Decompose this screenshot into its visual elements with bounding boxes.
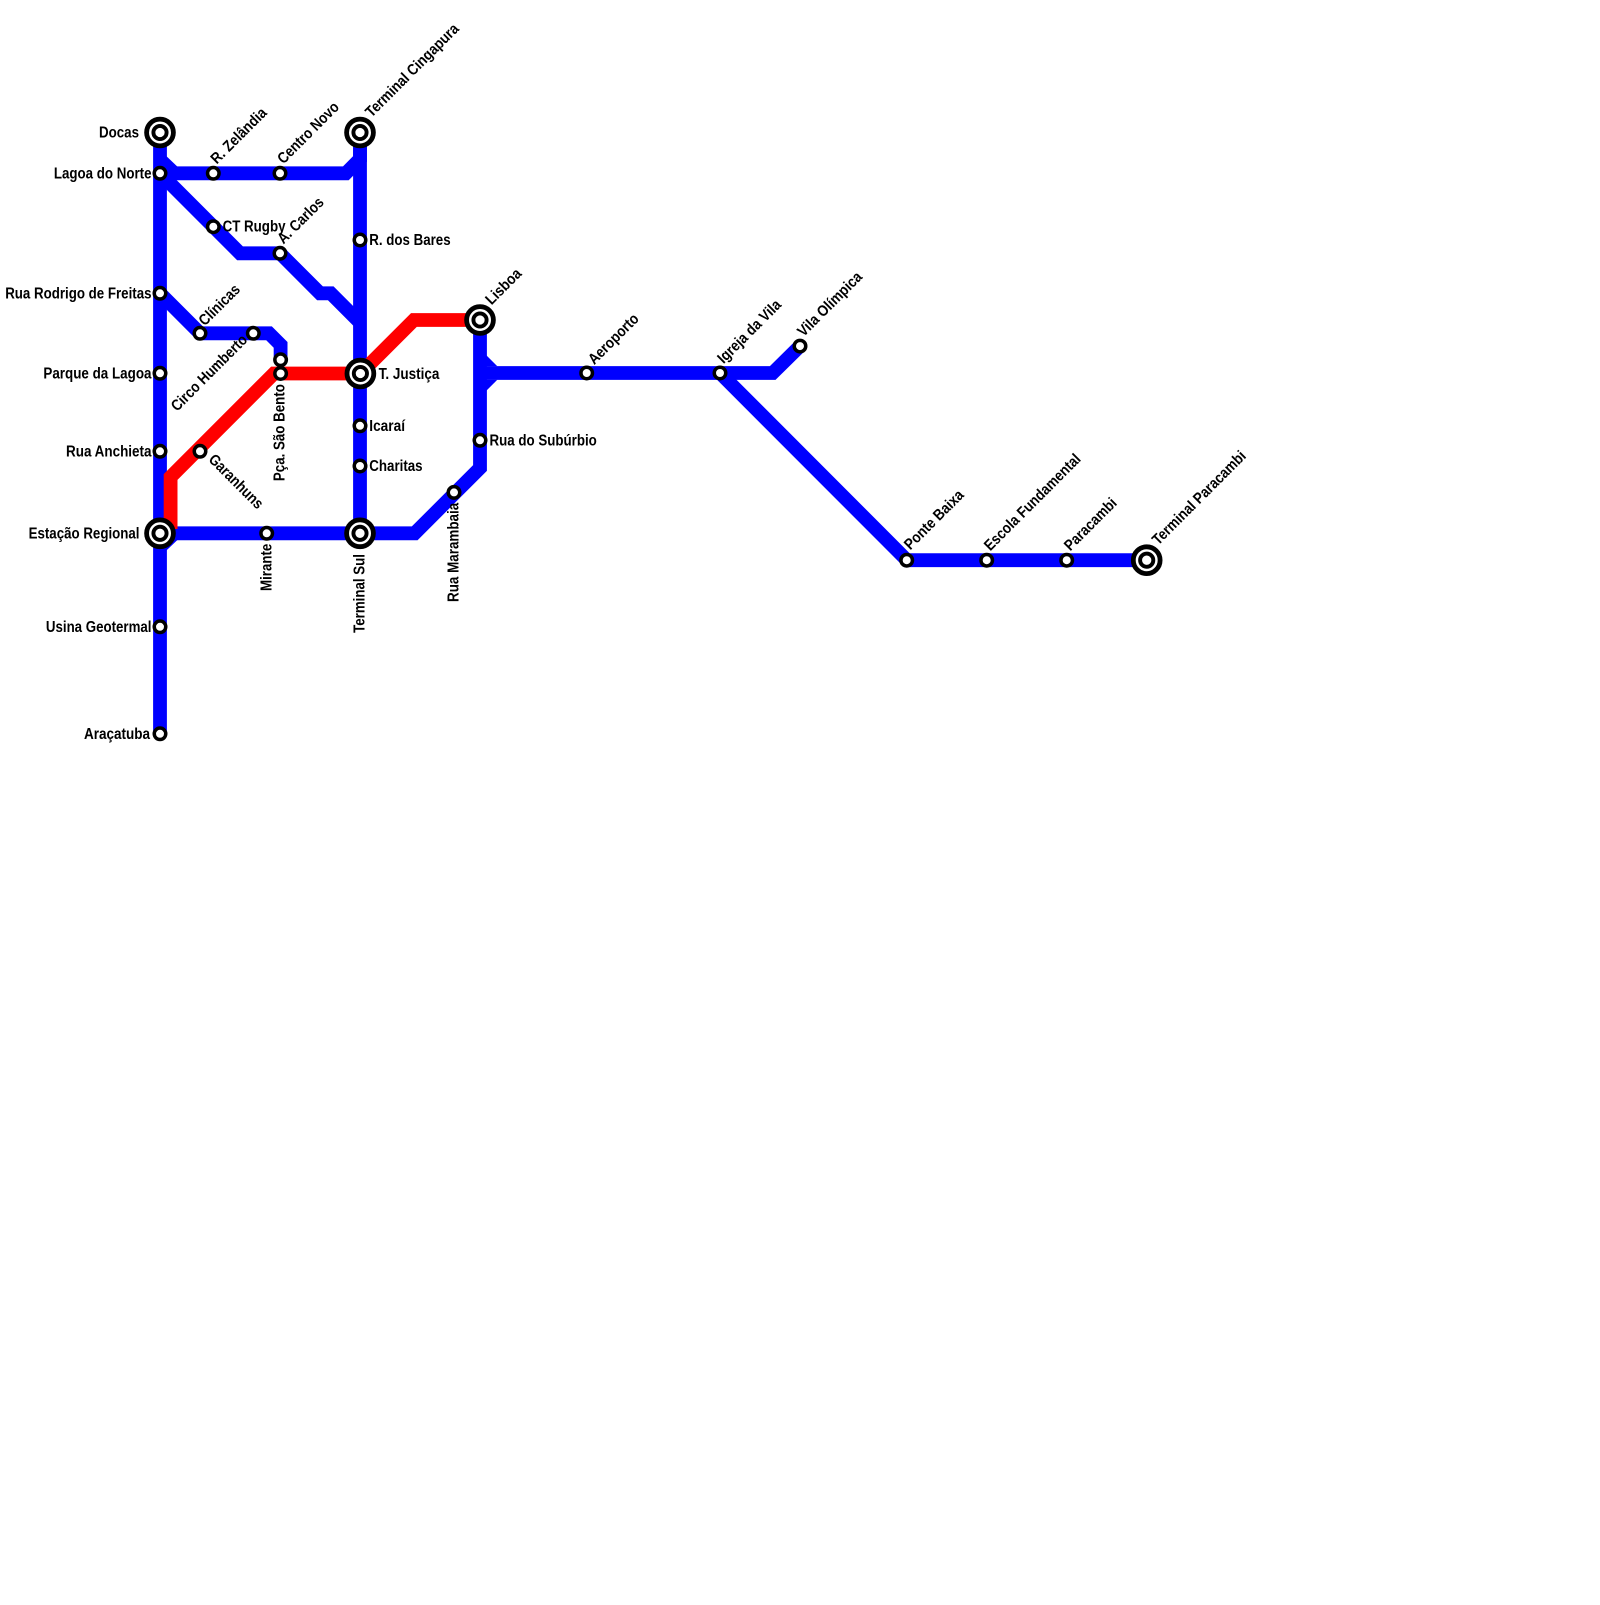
station A. Carlos (274, 248, 286, 259)
label A. Carlos (274, 194, 327, 247)
label R. Zelandia (208, 104, 271, 167)
label Terminal Cingapura (362, 20, 463, 121)
svg-text:Pça. São Bento: Pça. São Bento (272, 384, 289, 481)
station pair top blue (275, 354, 287, 366)
station Garanhuns (194, 446, 206, 458)
interchange Terminal Sul (347, 520, 374, 547)
station Aracatuba (154, 728, 166, 740)
label Circo Humberto (168, 332, 251, 415)
station Igreja da Vila (714, 367, 726, 379)
label Igreja da Vila (714, 296, 785, 367)
station R. dos Bares (354, 234, 366, 246)
blue line: east horizontal to Igreja da Vila (483, 355, 720, 390)
interchange Lisboa (467, 307, 494, 334)
svg-text:T. Justiça: T. Justiça (379, 366, 440, 383)
svg-text:Usina Geotermal: Usina Geotermal (46, 619, 152, 636)
station Clinicas (194, 328, 206, 340)
svg-text:Rua do Subúrbio: Rua do Subúrbio (490, 432, 597, 449)
station Escola Fundamental (981, 554, 993, 566)
svg-text:Parque da Lagoa: Parque da Lagoa (43, 365, 151, 382)
label Docas (99, 125, 139, 142)
label Escola Fundamental (981, 451, 1084, 554)
label Terminal Sul (352, 554, 369, 633)
svg-text:Estação Regional: Estação Regional (29, 525, 140, 542)
label Usina Geotermal (46, 619, 152, 636)
label Rua Rodrigo de Freitas (5, 285, 151, 302)
station Circo Humberto (248, 328, 259, 340)
blue line: Clinicas branch (160, 293, 281, 360)
svg-text:Rua Anchieta: Rua Anchieta (66, 443, 152, 460)
label Parque da Lagoa (43, 365, 151, 382)
label Estacao Regional (29, 525, 140, 542)
svg-text:Mirante: Mirante (258, 543, 275, 591)
station CT Rugby (208, 221, 220, 233)
station Icarai (354, 420, 366, 432)
svg-text:Lagoa do Norte: Lagoa do Norte (54, 165, 152, 182)
label Lisboa (482, 265, 525, 308)
blue line: main vertical Docas-Aracatuba (153, 133, 167, 734)
blue line: Terminal Cingapura vertical to Terminal Sul (353, 133, 367, 534)
svg-text:Rua Marambaia: Rua Marambaia (446, 502, 463, 602)
station Rua do Suburbio (474, 435, 486, 447)
station Aeroporto (581, 367, 593, 379)
interchange Terminal Paracambi (1133, 547, 1160, 574)
label Rua Marambaia (446, 502, 463, 602)
label T. Justica (379, 366, 440, 383)
label Aracatuba (84, 726, 150, 743)
blue line: south loop Estacao Regional - Terminal Sul - Lisboa (160, 320, 480, 550)
station Centro Novo (274, 168, 286, 180)
label R. dos Bares (369, 232, 450, 249)
station Rua Marambaia (448, 487, 460, 499)
svg-text:R. dos Bares: R. dos Bares (369, 232, 450, 249)
label Vila Olimpica (794, 268, 866, 340)
station Charitas (354, 460, 366, 472)
label Ponte Baixa (901, 487, 968, 554)
station Vila Olimpica (794, 340, 806, 352)
label Paracambi (1061, 495, 1121, 555)
blue line: Vila Olimpica branch (720, 346, 800, 373)
label Aeroporto (585, 310, 643, 368)
svg-text:Terminal Sul: Terminal Sul (352, 554, 369, 633)
label Pca. Sao Bento (272, 384, 289, 481)
label CT Rugby (223, 219, 286, 236)
station Pca. Sao Bento (275, 368, 287, 380)
station Lagoa do Norte (154, 168, 166, 180)
interchange Estacao Regional (147, 520, 174, 547)
interchange T. Justica (347, 360, 374, 387)
blue line: Lagoa do Norte to Terminal Cingapura (160, 133, 360, 174)
svg-text:Araçatuba: Araçatuba (84, 726, 150, 743)
station Rua Anchieta (154, 446, 166, 458)
station R. Zelandia (208, 168, 220, 180)
label Terminal Paracambi (1149, 448, 1250, 549)
label Rua Anchieta (66, 443, 152, 460)
svg-text:Charitas: Charitas (369, 458, 422, 475)
station Mirante (261, 528, 273, 540)
station Paracambi (1061, 554, 1073, 566)
svg-text:Icaraí: Icaraí (369, 418, 405, 435)
label Icarai (369, 418, 405, 435)
interchange Terminal Cingapura (347, 119, 374, 146)
interchange Docas (147, 119, 174, 146)
svg-text:Docas: Docas (99, 125, 139, 142)
label Clinicas (196, 281, 244, 329)
blue line: diagonal to Ponte Baixa and east to Terminal Paracambi (720, 373, 1147, 560)
label Rua do Suburbio (490, 432, 597, 449)
station Usina Geotermal (154, 621, 166, 633)
label Lagoa do Norte (54, 165, 152, 182)
label Mirante (258, 543, 275, 591)
svg-text:Rua Rodrigo de Freitas: Rua Rodrigo de Freitas (5, 285, 151, 302)
label Centro Novo (274, 99, 343, 168)
station Rua Rodrigo de Freitas (154, 288, 166, 300)
label Garanhuns (205, 451, 267, 513)
label Charitas (369, 458, 422, 475)
station Ponte Baixa (901, 554, 913, 566)
station Parque da Lagoa (154, 368, 166, 380)
red line: Estacao Regional - Lisboa (171, 320, 480, 529)
blue line: CT Rugby branch (160, 173, 360, 322)
